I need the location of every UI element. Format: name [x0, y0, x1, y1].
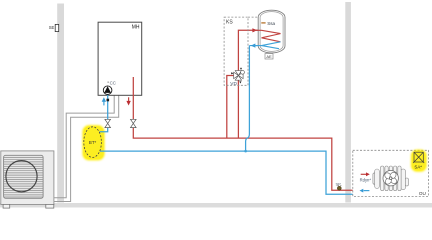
black square fitting below pump	[107, 99, 110, 102]
pump CC	[103, 80, 116, 94]
mixing valve VD	[234, 71, 243, 81]
svg-text:OU: OU	[419, 191, 426, 196]
red flow arrow into tank	[252, 28, 257, 32]
pump SP on red line	[336, 181, 342, 190]
refrigerant pipe 2 (MH to outdoor unit)	[54, 95, 119, 201]
yellow highlight BT*	[83, 125, 105, 160]
blue flow arrow up (MH return)	[103, 101, 105, 105]
red flow arrow down (MH flow)	[128, 97, 130, 101]
outdoor sensor SE	[49, 24, 59, 31]
wall right	[345, 2, 351, 203]
red pipe VD top port to tank	[238, 30, 261, 70]
blue junction dot	[244, 150, 247, 153]
red tee up to VD valve left port	[227, 76, 234, 139]
OU dashed box	[353, 150, 429, 196]
svg-text:CC: CC	[110, 80, 116, 85]
sensor Ssa	[261, 21, 275, 26]
KS dashed box	[224, 17, 258, 85]
AE box below tank	[265, 54, 273, 59]
blue main horizontal to right wall and into OU	[100, 151, 353, 194]
tank coil red	[262, 30, 281, 42]
svg-text:Ssa: Ssa	[267, 21, 275, 26]
floor	[0, 203, 432, 208]
wall left	[57, 4, 64, 203]
air vent symbol SA*	[413, 152, 424, 163]
svg-text:BT*: BT*	[89, 140, 97, 145]
svg-text:SE: SE	[49, 25, 55, 30]
heat pump outdoor unit body	[1, 151, 54, 205]
svg-text:AE: AE	[266, 54, 272, 59]
radiator Rdyn*	[373, 166, 409, 191]
outdoor unit grille slats	[4, 158, 43, 198]
fan of Rdyn*	[383, 171, 398, 186]
yellow highlight SA*	[411, 150, 427, 172]
outdoor unit fan circle	[6, 161, 37, 192]
buffer tank BT* dashed ellipse	[84, 127, 102, 158]
svg-text:VD: VD	[230, 81, 237, 87]
blue flow arrow out of tank	[251, 44, 256, 48]
tank coil blue + exit	[249, 42, 280, 46]
tank coil drawn over tank	[253, 30, 281, 42]
blue pipe pump down to BT*	[100, 94, 108, 132]
refrigerant pipe 1 (MH to outdoor unit)	[54, 95, 114, 197]
shut-off valve on red line	[131, 119, 137, 127]
boiler MH box	[98, 22, 142, 95]
red pipe VD bottom port	[237, 80, 239, 138]
outdoor unit feet	[3, 204, 10, 208]
svg-text:Rdyn*: Rdyn*	[360, 178, 372, 183]
svg-text:MH: MH	[132, 24, 140, 30]
shut-off valve on blue line	[105, 119, 111, 127]
svg-text:SA*: SA*	[414, 164, 422, 169]
blue pipe tank down with hop over red	[246, 46, 250, 152]
red pipe from MH down and across to right	[132, 77, 134, 119]
blue flow arrow out of radiator	[360, 189, 370, 193]
hot water tank	[258, 10, 285, 53]
red flow arrow into radiator	[361, 172, 370, 176]
svg-text:KS: KS	[226, 19, 233, 25]
